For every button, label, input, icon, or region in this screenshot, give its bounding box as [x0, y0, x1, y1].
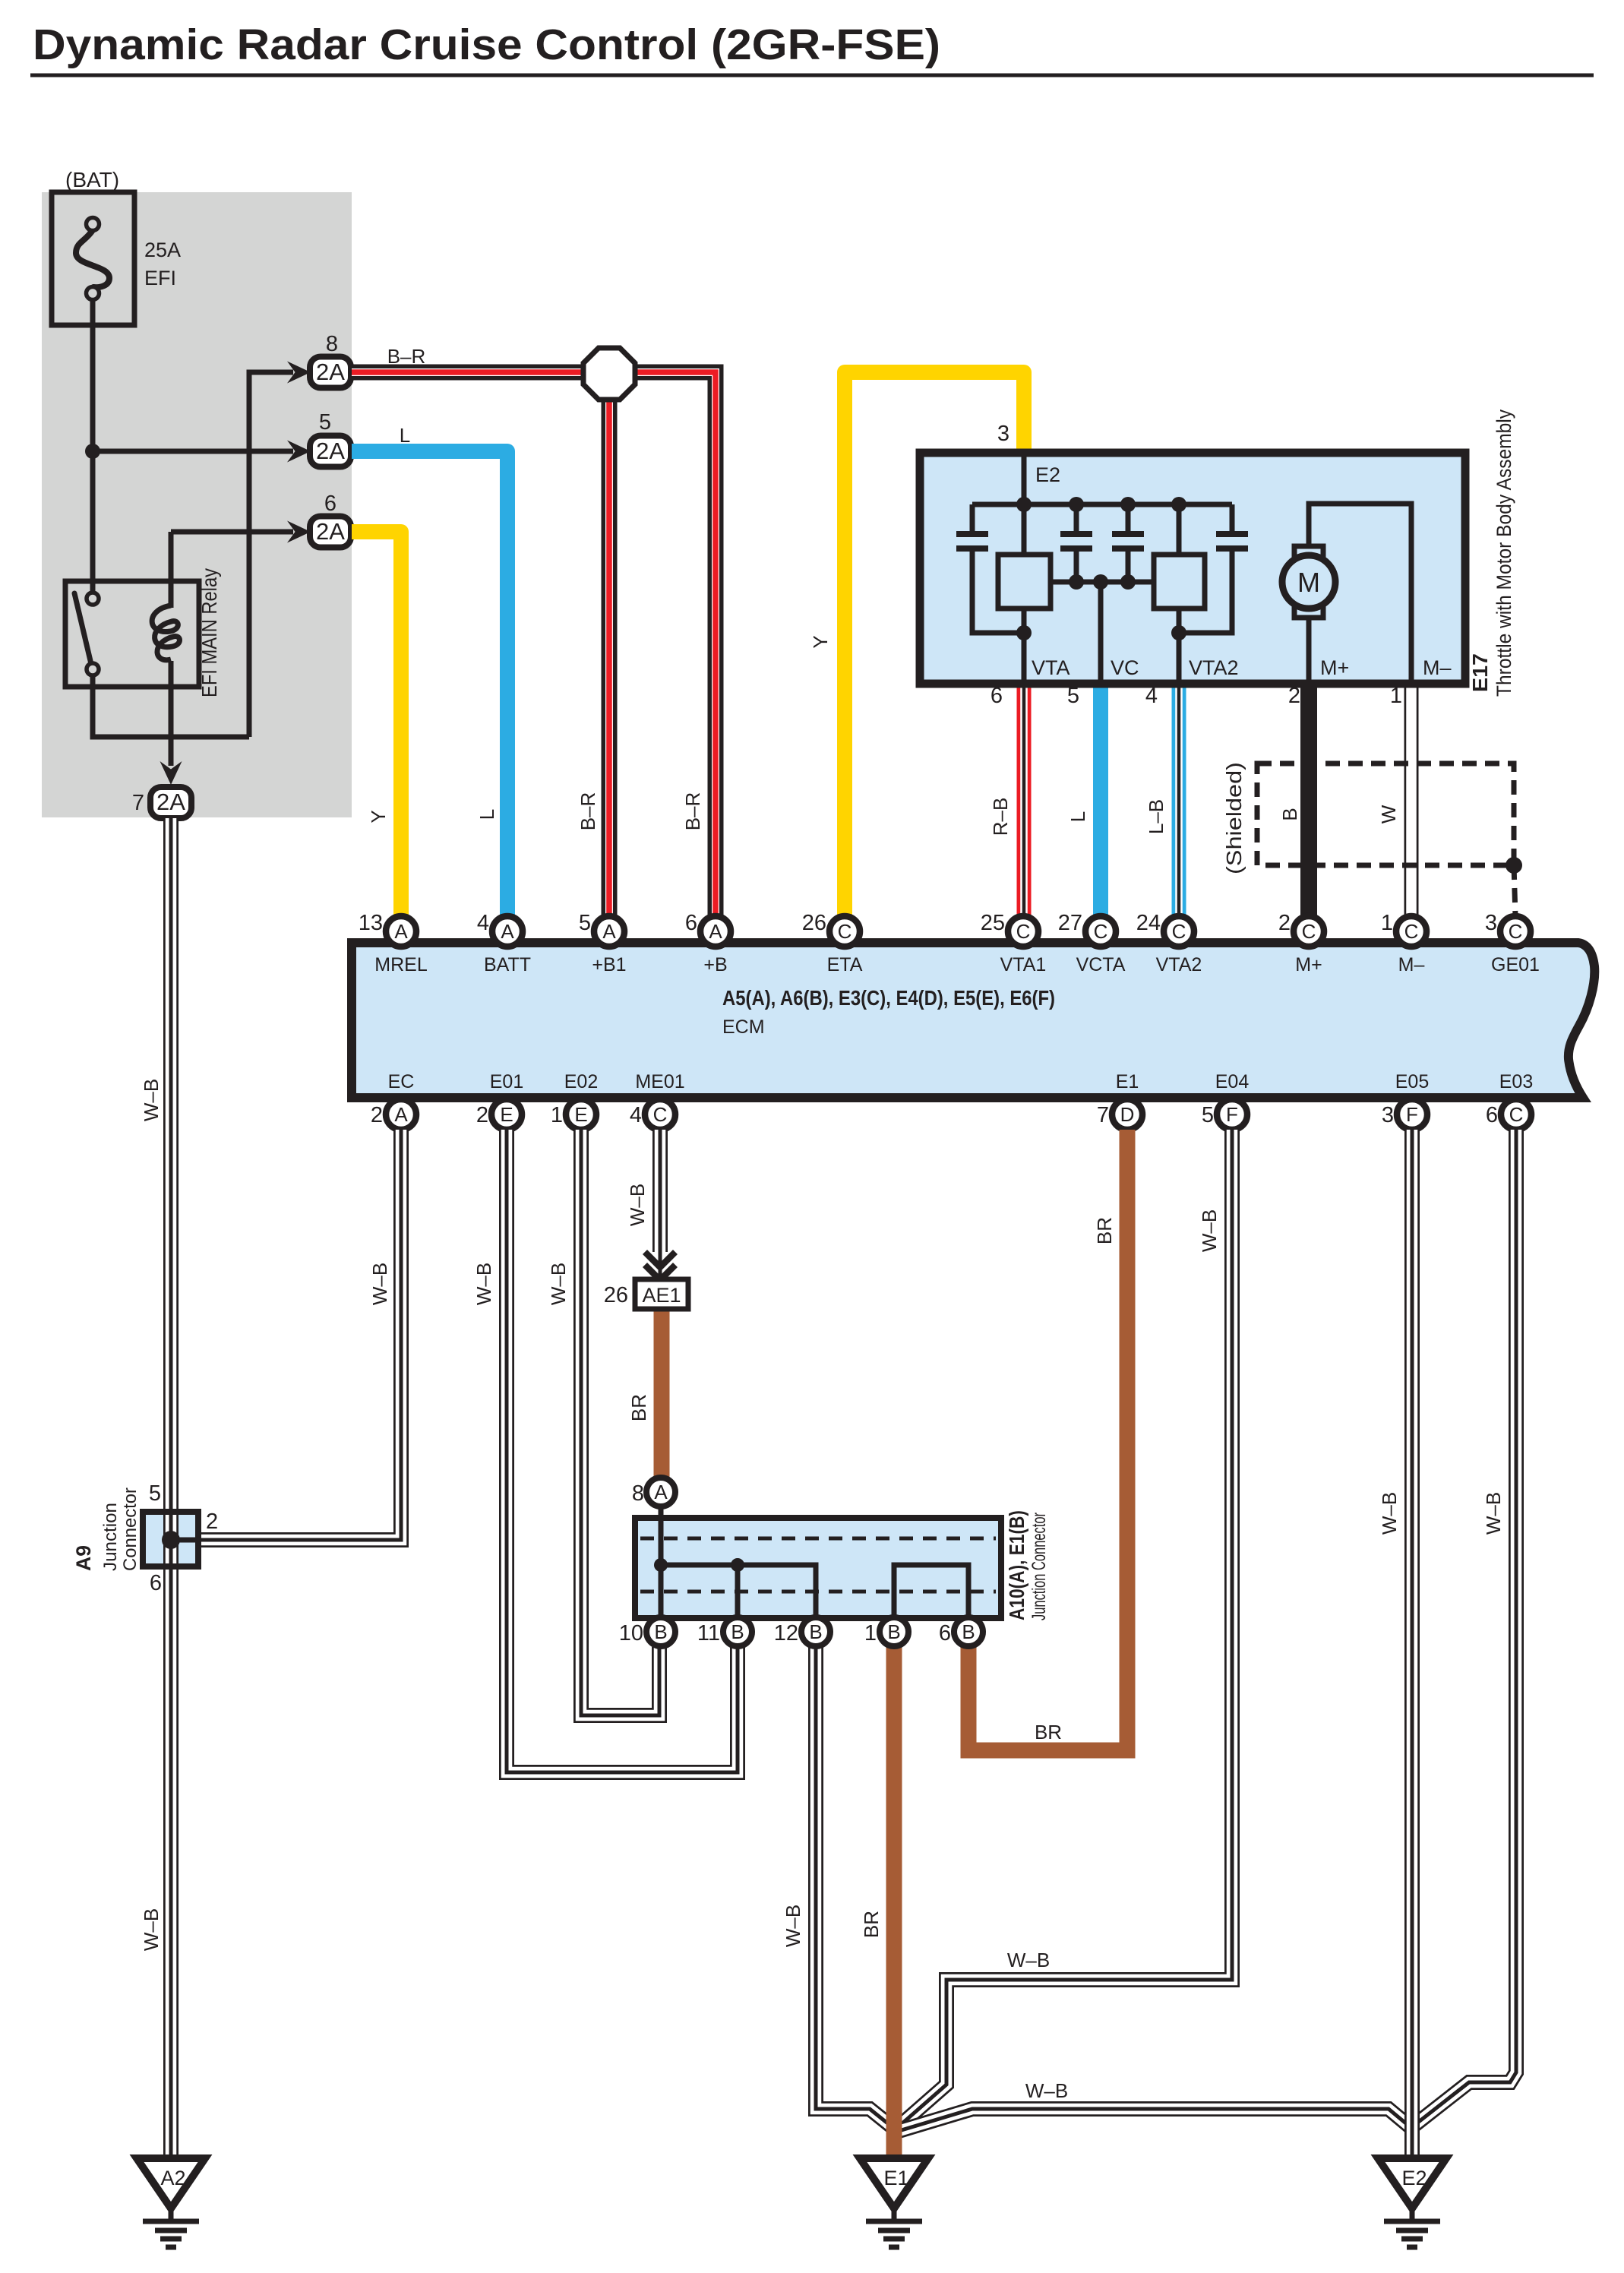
svg-text:BR: BR	[627, 1394, 650, 1421]
sensor element U1 (VTA)	[998, 555, 1051, 609]
sensor element U2 (VTA2)	[1154, 555, 1205, 609]
motor M1 throttle motor	[1282, 504, 1411, 684]
svg-text:E1: E1	[883, 2167, 908, 2189]
svg-text:A: A	[394, 1103, 408, 1126]
pin 1 E E02	[566, 1099, 596, 1130]
svg-text:W–B: W–B	[472, 1263, 495, 1305]
splice box AE1	[604, 1279, 688, 1309]
svg-text:C: C	[1094, 920, 1108, 943]
ground E2	[1378, 2158, 1446, 2247]
svg-text:2: 2	[206, 1510, 218, 1534]
svg-text:C: C	[1509, 920, 1523, 943]
svg-text:W–B: W–B	[1482, 1492, 1505, 1535]
svg-text:3: 3	[1382, 1103, 1394, 1127]
svg-text:B: B	[887, 1620, 900, 1643]
svg-text:2A: 2A	[316, 518, 345, 545]
capacitor C1	[956, 504, 1024, 633]
svg-text:E2: E2	[1401, 2167, 1427, 2189]
svg-text:Throttle with Motor Body Assem: Throttle with Motor Body Assembly	[1493, 409, 1515, 697]
wire W-B: E04 to E1 ground	[897, 1130, 1232, 2128]
svg-text:M: M	[1297, 567, 1320, 598]
pin 26 C ETA	[829, 916, 860, 947]
svg-text:10: 10	[619, 1621, 643, 1645]
fuse F1 25A EFI	[52, 168, 181, 325]
svg-text:2: 2	[476, 1103, 488, 1127]
svg-text:11: 11	[697, 1621, 720, 1645]
svg-text:VTA: VTA	[1032, 656, 1070, 679]
svg-text:5: 5	[579, 911, 591, 935]
svg-text:25: 25	[981, 911, 1005, 935]
junction connector A9	[72, 1481, 218, 1595]
svg-text:M+: M+	[1295, 954, 1322, 975]
svg-text:MREL: MREL	[374, 954, 428, 975]
wire: fuse to relay switch	[90, 299, 96, 595]
wire L: throttle VC to VCTA	[1093, 684, 1108, 916]
svg-text:C: C	[1404, 920, 1419, 943]
svg-text:5: 5	[149, 1481, 161, 1506]
wire W-B: E02 to junction connector pin 10	[581, 1130, 659, 1715]
svg-text:A10(A), E1(B): A10(A), E1(B)	[1005, 1510, 1028, 1620]
svg-text:6: 6	[939, 1621, 951, 1645]
svg-text:Dynamic Radar Cruise Control (: Dynamic Radar Cruise Control (2GR-FSE)	[33, 21, 940, 69]
wire W-B: E01 to junction connector pin 11	[507, 1130, 738, 1772]
throttle body E17 block	[920, 453, 1465, 684]
wire R-B: throttle VTA to VTA1	[1017, 684, 1032, 916]
title: Dynamic Radar Cruise Control (2GR-FSE)	[30, 21, 1594, 75]
svg-text:W–B: W–B	[1025, 2079, 1068, 2102]
wire: internal ground bus	[972, 502, 1232, 507]
svg-text:E: E	[574, 1103, 587, 1126]
svg-text:W–B: W–B	[140, 1079, 163, 1121]
ECM bottom pin circles row	[371, 1099, 1531, 1130]
svg-text:E02: E02	[564, 1071, 598, 1092]
arrow into AE1	[645, 1252, 675, 1280]
svg-text:B: B	[731, 1620, 744, 1643]
svg-text:C: C	[1172, 920, 1186, 943]
wire B: throttle M+ to ECM M+	[1300, 684, 1317, 916]
svg-text:2A: 2A	[316, 438, 345, 464]
wire B-R: 2A-8 to +B1/+B via junction	[352, 372, 716, 916]
svg-text:C: C	[653, 1103, 668, 1126]
svg-text:Junction Connector: Junction Connector	[1028, 1513, 1050, 1620]
svg-text:7: 7	[1097, 1103, 1109, 1127]
svg-text:VTA2: VTA2	[1189, 656, 1239, 679]
svg-text:2A: 2A	[156, 789, 185, 815]
internal bus: pins 10/11/12	[661, 1506, 816, 1632]
svg-text:F: F	[1406, 1103, 1418, 1126]
svg-text:4: 4	[477, 911, 489, 935]
svg-text:EC: EC	[388, 1071, 415, 1092]
svg-text:B: B	[962, 1620, 975, 1643]
svg-text:Y: Y	[367, 810, 390, 823]
wire W-B: ME01 to AE1 arrow	[652, 1130, 668, 1278]
svg-text:26: 26	[604, 1283, 628, 1307]
connector pin 5 2A	[287, 410, 351, 467]
wire: relay to connector 2A-8	[249, 372, 293, 737]
shield: dashed shielding around B and W wires	[1222, 762, 1522, 916]
svg-text:EFI: EFI	[144, 267, 176, 289]
wire Y: 2A-6 to MREL	[352, 532, 401, 916]
svg-text:5: 5	[319, 410, 331, 435]
pin 7 D E1	[1112, 1099, 1142, 1130]
svg-text:BR: BR	[860, 1911, 883, 1938]
wire: VTA2 internal vertical	[1177, 504, 1182, 684]
svg-text:F: F	[1226, 1103, 1238, 1126]
svg-text:13: 13	[359, 911, 383, 935]
svg-text:27: 27	[1058, 911, 1082, 935]
node: battery feed junction	[85, 444, 100, 459]
svg-text:M+: M+	[1320, 656, 1349, 679]
wire W-B: E05 to E2 ground	[1404, 1130, 1420, 2158]
svg-text:2A: 2A	[316, 359, 345, 385]
svg-text:VTA2: VTA2	[1156, 954, 1202, 975]
svg-text:A5(A), A6(B), E3(C), E4(D), E5: A5(A), A6(B), E3(C), E4(D), E5(E), E6(F)	[722, 986, 1055, 1010]
wire: junction to connector 2A-5	[93, 449, 293, 454]
svg-text:E04: E04	[1215, 1071, 1250, 1092]
pin 6 C E03	[1501, 1099, 1531, 1130]
svg-text:W–B: W–B	[1198, 1209, 1221, 1252]
svg-text:BATT: BATT	[484, 954, 531, 975]
svg-text:B–R: B–R	[577, 792, 599, 831]
svg-text:1: 1	[864, 1621, 877, 1645]
svg-text:(Shielded): (Shielded)	[1222, 762, 1246, 874]
svg-text:5: 5	[1202, 1103, 1214, 1127]
wire: coil top to connector 2A-6	[171, 532, 293, 608]
svg-text:ME01: ME01	[635, 1071, 684, 1092]
svg-text:B: B	[654, 1620, 667, 1643]
svg-text:C: C	[1016, 920, 1031, 943]
svg-text:E2: E2	[1035, 463, 1060, 486]
capacitor C2	[1060, 504, 1092, 582]
ECM block A5/A6/E3/E4/E5/E6	[352, 943, 1594, 1098]
svg-text:W–B: W–B	[1007, 1949, 1050, 1971]
svg-text:VTA1: VTA1	[1000, 954, 1047, 975]
svg-text:W: W	[1377, 805, 1400, 824]
pin 5 A +B1	[594, 916, 624, 947]
pin 3 F E05	[1397, 1099, 1427, 1130]
connector pin 7 2A	[132, 761, 191, 818]
wire: relay outputs bus	[93, 661, 249, 766]
node dots on buses	[1016, 497, 1186, 640]
svg-text:A: A	[501, 920, 514, 943]
svg-text:E: E	[500, 1103, 513, 1126]
svg-text:BR: BR	[1035, 1721, 1062, 1743]
svg-text:BR: BR	[1093, 1217, 1116, 1244]
svg-text:8: 8	[632, 1481, 644, 1506]
svg-text:B–R: B–R	[387, 345, 426, 368]
wire L: 2A-5 to BATT	[352, 451, 507, 916]
svg-text:+B1: +B1	[592, 954, 626, 975]
svg-text:L: L	[1066, 811, 1089, 822]
svg-text:2: 2	[371, 1103, 383, 1127]
svg-text:EFI MAIN Relay: EFI MAIN Relay	[197, 568, 221, 697]
svg-text:4: 4	[630, 1103, 642, 1127]
svg-text:C: C	[1302, 920, 1316, 943]
capacitor C4	[1179, 504, 1248, 633]
wire: E2 internal vertical	[1022, 453, 1027, 684]
pin 2 A EC	[386, 1099, 416, 1130]
pin 25 C VTA1	[1008, 916, 1038, 947]
capacitor C3	[1112, 504, 1144, 582]
wire W: throttle M- to ECM M-	[1404, 684, 1419, 916]
svg-text:W–B: W–B	[547, 1263, 570, 1305]
junction pin 6 B	[939, 1617, 983, 1646]
pin 2 E E01	[491, 1099, 522, 1130]
wire L-B: throttle VTA2 to ECM VTA2	[1172, 684, 1186, 916]
svg-text:8: 8	[326, 332, 338, 356]
wire W-B: junction pin 12 to E1 ground	[816, 1647, 897, 2131]
wire: VC internal vertical	[1098, 582, 1104, 684]
pin 24 C VTA2	[1164, 916, 1194, 947]
connector pin 8 2A	[287, 332, 351, 388]
svg-text:C: C	[838, 920, 852, 943]
pin 13 A MREL	[386, 916, 416, 947]
junction pin 10 B	[619, 1617, 675, 1646]
svg-text:6: 6	[324, 492, 336, 516]
wire BR: junction pin 1 to E1 ground	[886, 1647, 902, 2158]
svg-text:ECM: ECM	[722, 1016, 765, 1038]
svg-text:E03: E03	[1499, 1071, 1533, 1092]
svg-text:R–B: R–B	[989, 798, 1012, 836]
wire W-B: E03 to E2 ground	[1413, 1130, 1516, 2126]
svg-text:3: 3	[1485, 911, 1497, 935]
svg-text:W–B: W–B	[626, 1184, 649, 1226]
svg-text:3: 3	[997, 422, 1009, 446]
connector pin 6 2A	[287, 492, 351, 548]
pin 2 C M+	[1294, 916, 1324, 947]
svg-text:24: 24	[1136, 911, 1161, 935]
wire W-B: E1 ground to E2 ground link	[896, 2109, 1411, 2132]
node dots in junction connector	[654, 1558, 668, 1572]
svg-text:+B: +B	[703, 954, 727, 975]
svg-text:7: 7	[132, 791, 144, 815]
svg-text:25A: 25A	[144, 239, 181, 261]
svg-text:E01: E01	[490, 1071, 523, 1092]
power-source shaded area	[42, 192, 352, 817]
wire W-B: EC to A9	[198, 1130, 401, 1540]
junction pin 1 B	[864, 1617, 908, 1646]
ground A2	[137, 2158, 205, 2247]
svg-text:ETA: ETA	[827, 954, 863, 975]
svg-text:W–B: W–B	[368, 1263, 391, 1305]
svg-text:12: 12	[774, 1621, 798, 1645]
pin 5 F E04	[1217, 1099, 1247, 1130]
ECM top pin circles row	[359, 911, 1531, 947]
svg-text:L: L	[400, 424, 410, 447]
svg-text:W–B: W–B	[140, 1908, 163, 1951]
svg-text:A: A	[709, 920, 722, 943]
svg-text:VCTA: VCTA	[1076, 954, 1126, 975]
junction pin 8 A	[632, 1478, 675, 1506]
svg-text:26: 26	[802, 911, 826, 935]
svg-text:B–R: B–R	[681, 792, 704, 831]
relay K1 EFI MAIN Relay	[65, 568, 221, 697]
svg-text:AE1: AE1	[642, 1284, 681, 1307]
wire Y: ETA to throttle pin 3	[845, 372, 1024, 916]
svg-text:A: A	[654, 1481, 668, 1503]
pin 1 C M-	[1396, 916, 1427, 947]
ground E1	[860, 2158, 928, 2247]
wire BR: ECM E1 to junction pin 6	[968, 1130, 1127, 1750]
svg-text:Y: Y	[809, 635, 832, 648]
svg-text:D: D	[1120, 1103, 1135, 1126]
pin 4 C ME01	[645, 1099, 675, 1130]
pin 6 A +B	[700, 916, 731, 947]
svg-text:1: 1	[551, 1103, 563, 1127]
junction pin 11 B	[697, 1617, 752, 1646]
pin 4 A BATT	[492, 916, 523, 947]
svg-text:E17: E17	[1468, 653, 1492, 692]
svg-text:C: C	[1509, 1103, 1524, 1126]
internal bus: pins 1/6	[894, 1565, 968, 1632]
svg-text:L: L	[476, 809, 498, 820]
svg-text:6: 6	[150, 1571, 162, 1595]
svg-text:A9: A9	[72, 1545, 95, 1571]
svg-text:M–: M–	[1398, 954, 1425, 975]
node: B-R splice octagon	[583, 348, 635, 400]
svg-text:GE01: GE01	[1491, 954, 1540, 975]
svg-text:6: 6	[685, 911, 697, 935]
svg-text:W–B: W–B	[782, 1905, 804, 1947]
junction connector A10(A), E1(B) block	[635, 1518, 1001, 1618]
svg-text:1: 1	[1381, 911, 1393, 935]
wire: sensor mid bus	[1051, 580, 1154, 585]
pin 27 C VCTA	[1085, 916, 1116, 947]
svg-text:A: A	[602, 920, 616, 943]
svg-text:A: A	[394, 920, 408, 943]
svg-text:2: 2	[1278, 911, 1291, 935]
svg-text:L–B: L–B	[1145, 799, 1167, 834]
svg-text:VC: VC	[1111, 656, 1139, 679]
svg-text:M–: M–	[1423, 656, 1452, 679]
svg-text:B: B	[1278, 808, 1301, 820]
svg-text:W–B: W–B	[1378, 1492, 1401, 1535]
svg-text:Junction: Junction	[100, 1503, 121, 1571]
svg-text:E1: E1	[1116, 1071, 1139, 1092]
svg-text:Connector: Connector	[120, 1487, 141, 1571]
svg-text:A2: A2	[160, 2167, 185, 2189]
pin 3 C GE01	[1500, 916, 1531, 947]
wire BR: AE1 to junction pin 8	[654, 1311, 670, 1480]
wire W-B: 2A-7 through A9 to A2 ground	[163, 818, 179, 2158]
junction pin 12 B	[774, 1617, 830, 1646]
svg-text:E05: E05	[1395, 1071, 1429, 1092]
svg-text:(BAT): (BAT)	[65, 168, 119, 191]
svg-text:6: 6	[1486, 1103, 1498, 1127]
svg-text:B: B	[809, 1620, 822, 1643]
